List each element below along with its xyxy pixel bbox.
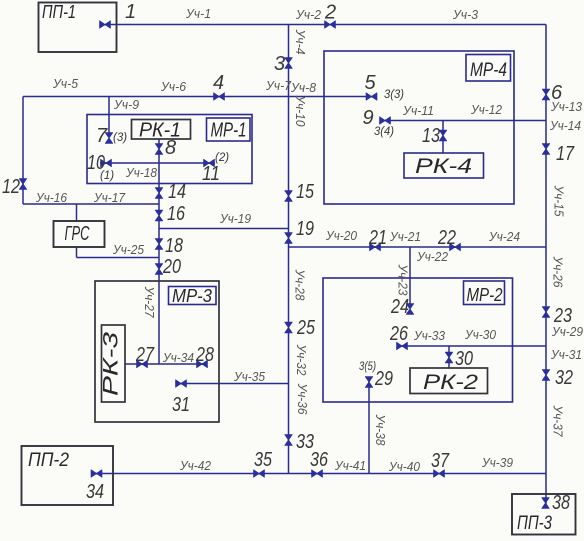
- svg-text:Уч-1: Уч-1: [185, 7, 211, 21]
- svg-text:Уч-17: Уч-17: [93, 191, 126, 205]
- svg-text:Уч-10: Уч-10: [293, 95, 307, 127]
- svg-text:МР-3: МР-3: [172, 286, 212, 306]
- svg-text:Уч-39: Уч-39: [481, 456, 513, 470]
- svg-text:Уч-35: Уч-35: [233, 370, 265, 384]
- svg-text:Уч-21: Уч-21: [389, 230, 421, 244]
- svg-text:Уч-32: Уч-32: [294, 344, 308, 376]
- svg-text:Уч-6: Уч-6: [160, 80, 186, 94]
- svg-text:Уч-33: Уч-33: [413, 329, 445, 343]
- svg-text:24: 24: [390, 296, 409, 318]
- svg-text:РК-3: РК-3: [100, 332, 123, 396]
- svg-text:25: 25: [296, 317, 316, 339]
- svg-text:27: 27: [135, 344, 155, 366]
- svg-text:Уч-4: Уч-4: [293, 29, 307, 55]
- svg-text:Уч-42: Уч-42: [179, 459, 211, 473]
- svg-text:2: 2: [324, 2, 336, 24]
- svg-text:Уч-7: Уч-7: [265, 79, 292, 93]
- svg-text:4: 4: [213, 72, 224, 94]
- svg-text:23: 23: [553, 305, 572, 327]
- svg-text:Уч-38: Уч-38: [373, 414, 387, 446]
- svg-text:Уч-31: Уч-31: [550, 348, 582, 362]
- svg-text:20: 20: [162, 256, 181, 278]
- svg-text:Уч-5: Уч-5: [52, 77, 78, 91]
- svg-text:ПП-3: ПП-3: [517, 513, 552, 534]
- svg-text:(3): (3): [113, 132, 127, 144]
- svg-text:11: 11: [202, 163, 220, 185]
- svg-text:Уч-36: Уч-36: [295, 383, 309, 415]
- svg-text:Уч-12: Уч-12: [470, 103, 502, 117]
- svg-text:15: 15: [296, 181, 315, 203]
- svg-text:Уч-27: Уч-27: [142, 286, 156, 319]
- svg-text:12: 12: [2, 176, 20, 198]
- svg-text:5: 5: [365, 72, 377, 94]
- svg-text:9: 9: [363, 107, 374, 129]
- svg-text:3(5): 3(5): [359, 361, 376, 373]
- svg-text:Уч-37: Уч-37: [551, 405, 565, 438]
- svg-text:Уч-26: Уч-26: [551, 256, 565, 288]
- svg-text:26: 26: [389, 323, 409, 345]
- svg-text:Уч-16: Уч-16: [35, 191, 67, 205]
- svg-text:36: 36: [310, 449, 329, 471]
- svg-text:Уч-30: Уч-30: [464, 328, 496, 342]
- svg-text:Уч-18: Уч-18: [125, 166, 157, 180]
- svg-text:34: 34: [86, 481, 104, 503]
- svg-text:3(4): 3(4): [374, 126, 394, 138]
- svg-text:3: 3: [274, 53, 285, 75]
- svg-text:Уч-25: Уч-25: [112, 243, 144, 257]
- svg-text:Уч-22: Уч-22: [416, 250, 448, 264]
- svg-text:Уч-2: Уч-2: [295, 8, 321, 22]
- svg-text:(1): (1): [100, 170, 114, 182]
- svg-text:1: 1: [125, 1, 136, 23]
- svg-text:38: 38: [552, 492, 570, 514]
- svg-text:21: 21: [368, 227, 387, 249]
- svg-text:МР-4: МР-4: [470, 60, 507, 81]
- svg-text:Уч-29: Уч-29: [551, 325, 583, 339]
- svg-text:МР-1: МР-1: [211, 120, 247, 142]
- svg-text:Уч-28: Уч-28: [293, 269, 307, 301]
- svg-text:РК-1: РК-1: [139, 120, 181, 142]
- svg-text:Уч-3: Уч-3: [452, 8, 478, 22]
- svg-text:Уч-14: Уч-14: [549, 119, 581, 133]
- svg-text:13: 13: [422, 125, 440, 147]
- svg-text:Уч-8: Уч-8: [290, 81, 316, 95]
- svg-text:Уч-9: Уч-9: [113, 98, 139, 112]
- svg-text:17: 17: [556, 143, 575, 165]
- svg-text:Уч-19: Уч-19: [219, 212, 251, 226]
- svg-text:7: 7: [96, 125, 108, 147]
- svg-text:3(3): 3(3): [384, 89, 404, 101]
- svg-text:Уч-13: Уч-13: [550, 100, 582, 114]
- svg-text:Уч-20: Уч-20: [325, 229, 357, 243]
- svg-text:ПП-1: ПП-1: [42, 2, 76, 22]
- svg-text:(2): (2): [215, 152, 229, 164]
- svg-text:Уч-41: Уч-41: [334, 459, 366, 473]
- svg-text:ГРС: ГРС: [65, 223, 90, 245]
- svg-text:ПП-2: ПП-2: [28, 450, 69, 471]
- svg-text:Уч-34: Уч-34: [162, 351, 194, 365]
- svg-text:35: 35: [254, 449, 273, 471]
- svg-text:31: 31: [172, 394, 190, 416]
- svg-text:Уч-40: Уч-40: [388, 460, 420, 474]
- svg-text:РК-4: РК-4: [415, 155, 472, 178]
- svg-text:29: 29: [374, 368, 393, 390]
- svg-text:Уч-24: Уч-24: [488, 230, 520, 244]
- svg-text:16: 16: [167, 203, 186, 225]
- svg-text:Уч-23: Уч-23: [396, 264, 410, 296]
- svg-text:28: 28: [195, 344, 214, 366]
- svg-text:14: 14: [168, 181, 186, 203]
- svg-text:30: 30: [455, 348, 473, 370]
- svg-text:РК-2: РК-2: [423, 371, 478, 394]
- svg-text:22: 22: [437, 227, 456, 249]
- svg-text:Уч-11: Уч-11: [402, 104, 434, 118]
- svg-text:32: 32: [555, 367, 573, 389]
- svg-text:18: 18: [165, 235, 183, 257]
- svg-text:МР-2: МР-2: [467, 285, 503, 305]
- svg-text:37: 37: [431, 450, 450, 472]
- svg-text:19: 19: [296, 218, 314, 240]
- svg-text:Уч-15: Уч-15: [552, 185, 566, 217]
